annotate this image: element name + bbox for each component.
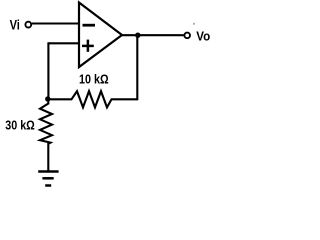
resistor R1 30 kOhm (vertical) bbox=[40, 98, 52, 144]
scan speck near Vo bbox=[193, 23, 195, 25]
input terminal circle Vi bbox=[25, 22, 31, 28]
wire output junction down to feedback resistor bbox=[136, 35, 138, 100]
ground symbol bbox=[38, 170, 58, 173]
wire left vertical down to node A bbox=[47, 42, 49, 99]
op-amp U1 bbox=[79, 3, 122, 68]
svg-text:Vi: Vi bbox=[10, 17, 20, 32]
op-amp U1 inverting input label (-) bbox=[83, 24, 96, 27]
wire op-amp output to Vo terminal bbox=[121, 34, 184, 36]
op-amp U1 non-inverting input label (+) bbox=[82, 45, 94, 48]
svg-text:Vo: Vo bbox=[196, 29, 210, 43]
wire resistor to ground bbox=[47, 143, 49, 171]
svg-text:10 kΩ: 10 kΩ bbox=[79, 72, 109, 87]
wire non-inverting input to left corner bbox=[48, 42, 79, 44]
junction dot at output bbox=[135, 33, 140, 38]
wire Vi terminal to op-amp inverting input bbox=[32, 22, 79, 24]
output terminal circle Vo bbox=[184, 33, 190, 39]
resistor R2 10 kOhm (feedback, horizontal) bbox=[50, 91, 137, 107]
node A junction dot bbox=[45, 96, 50, 101]
svg-text:30 kΩ: 30 kΩ bbox=[5, 118, 35, 133]
